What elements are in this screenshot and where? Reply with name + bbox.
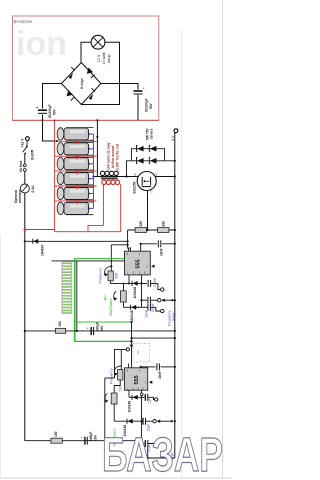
svg-text:10nF: 10nF (144, 310, 148, 318)
svg-text:10 watt: 10 watt (102, 51, 106, 64)
svg-text:bi-filar wound: bi-filar wound (111, 146, 115, 168)
svg-text:zeners: zeners (150, 128, 154, 139)
svg-text:83,000µF: 83,000µF (48, 104, 52, 118)
svg-text:0-5A: 0-5A (31, 185, 35, 193)
svg-text:1µF: 1µF (148, 398, 152, 404)
svg-text:range: range (172, 312, 176, 321)
svg-text:50V: 50V (53, 108, 57, 115)
svg-text:63,000µF: 63,000µF (145, 98, 149, 112)
svg-text:+: + (36, 105, 39, 110)
svg-text:1N4007: 1N4007 (41, 244, 45, 256)
svg-text:Bridge: Bridge (80, 78, 84, 89)
svg-text:100 turns 22 swg: 100 turns 22 swg (107, 143, 111, 170)
svg-text:1N4148: 1N4148 (133, 287, 137, 299)
svg-text:Frequency: Frequency (99, 268, 103, 284)
svg-text:1N4148: 1N4148 (130, 310, 134, 322)
svg-text:ammeter: ammeter (18, 189, 22, 203)
svg-text:+12 V: +12 V (21, 138, 25, 148)
svg-text:100: 100 (58, 321, 62, 327)
svg-text:555: 555 (136, 259, 142, 268)
svg-text:Mark/Space: Mark/Space (109, 298, 113, 316)
svg-text:BUZ350: BUZ350 (133, 181, 137, 193)
svg-text:on 3/8” ferrite rod: on 3/8” ferrite rod (116, 144, 120, 172)
svg-text:0 V: 0 V (171, 135, 175, 141)
svg-text:On: On (136, 350, 140, 354)
svg-text:18nF: 18nF (160, 248, 164, 256)
svg-text:S: S (156, 172, 158, 176)
svg-text:18nF: 18nF (158, 371, 162, 379)
svg-text:220: 220 (139, 221, 143, 227)
svg-text:Frequency: Frequency (110, 368, 114, 384)
svg-text:6A fuse: 6A fuse (19, 160, 23, 172)
svg-text:50K: 50K (115, 272, 119, 279)
svg-text:1N4148: 1N4148 (128, 401, 132, 413)
svg-text:220nF: 220nF (153, 278, 157, 287)
svg-text:G: G (151, 190, 153, 194)
svg-text:+: + (143, 86, 146, 91)
svg-text:4K7: 4K7 (104, 295, 108, 301)
svg-text:100nF: 100nF (151, 303, 155, 312)
svg-text:16V: 16V (100, 325, 104, 332)
svg-text:ion: ion (16, 25, 67, 63)
svg-text:100: 100 (54, 431, 58, 437)
svg-text:+: + (87, 327, 89, 331)
svg-text:50V: 50V (149, 102, 153, 109)
svg-text:On/Off: On/Off (31, 149, 35, 160)
svg-text:+: + (80, 436, 82, 440)
svg-text:D: D (134, 172, 136, 176)
svg-text:lamp: lamp (107, 54, 111, 62)
svg-text:555: 555 (134, 375, 140, 384)
svg-text:4K7: 4K7 (104, 397, 108, 403)
svg-text:12 V: 12 V (97, 54, 101, 62)
svg-text:100µF: 100µF (89, 432, 93, 441)
svg-text:16V: 16V (94, 434, 98, 441)
svg-text:100µF: 100µF (96, 322, 100, 331)
svg-text:БАЗАР: БАЗАР (102, 429, 223, 480)
svg-text:820: 820 (162, 221, 166, 227)
svg-text:Дс нагрузка: Дс нагрузка (14, 20, 33, 24)
